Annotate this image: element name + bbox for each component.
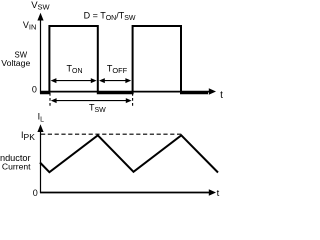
svg-text:Current: Current (2, 161, 31, 171)
svg-text:0: 0 (33, 188, 38, 198)
svg-text:IPK: IPK (21, 130, 35, 142)
svg-text:TOFF: TOFF (107, 63, 128, 75)
svg-text:VSW: VSW (31, 0, 50, 12)
svg-text:Voltage: Voltage (1, 58, 30, 68)
svg-text:t: t (220, 90, 223, 101)
svg-text:0: 0 (32, 85, 37, 95)
svg-text:VIN: VIN (23, 20, 37, 32)
svg-text:t: t (217, 188, 220, 199)
